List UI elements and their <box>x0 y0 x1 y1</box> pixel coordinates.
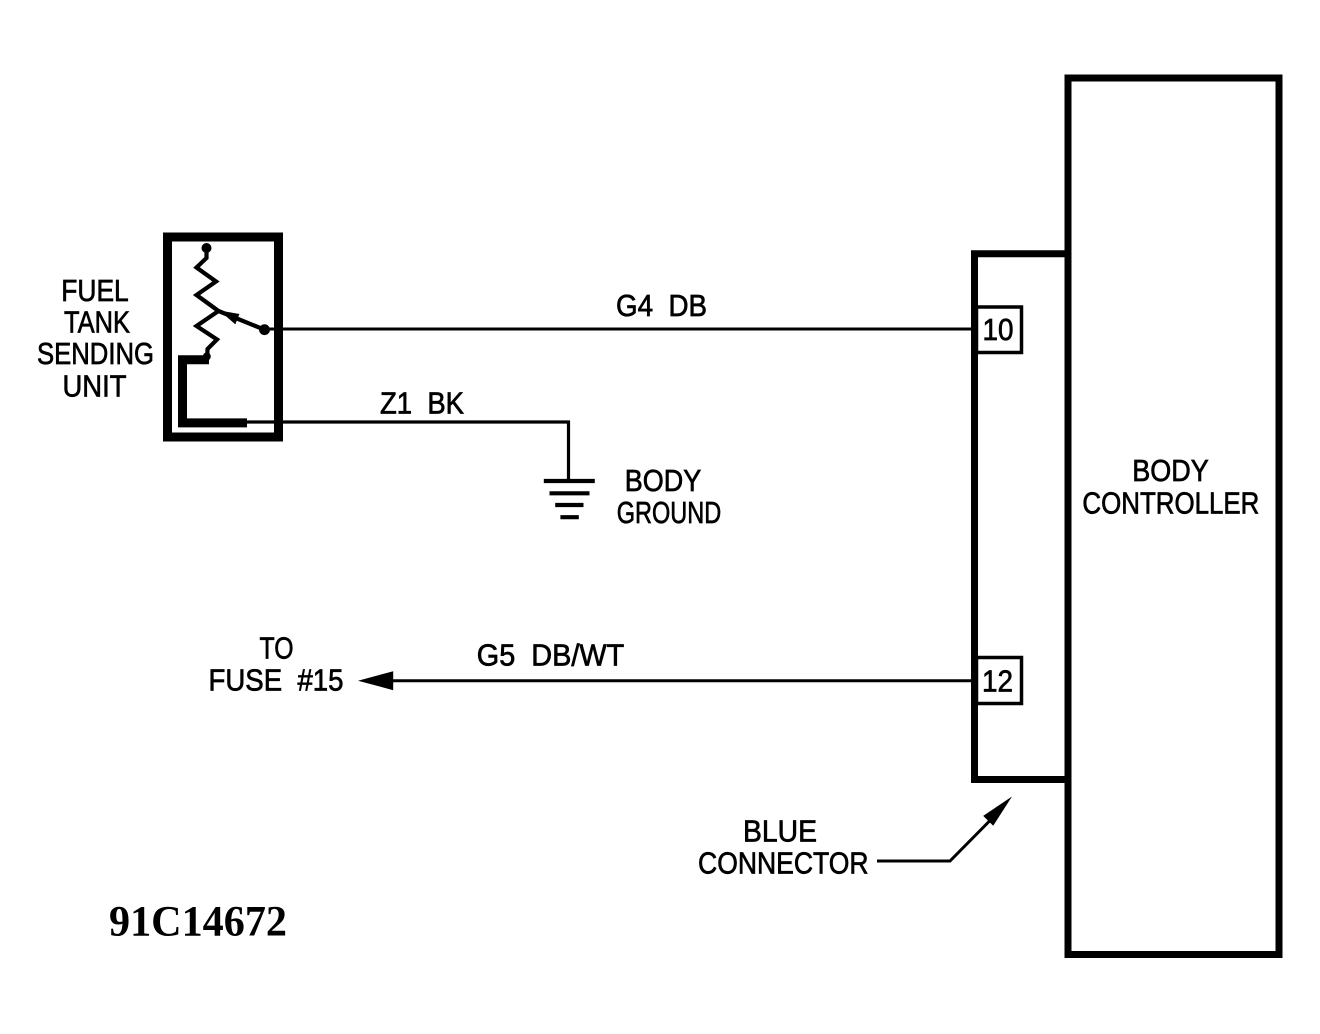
svg-text:TO: TO <box>260 631 294 666</box>
svg-text:10: 10 <box>983 312 1014 347</box>
svg-text:CONTROLLER: CONTROLLER <box>1082 485 1259 520</box>
resistor bottom junction dot <box>203 353 211 361</box>
svg-text:BLUE: BLUE <box>743 814 817 849</box>
blue connector leader line <box>877 820 991 862</box>
wire Z1 (sending unit to body ground) <box>244 422 569 479</box>
svg-text:CONNECTOR: CONNECTOR <box>698 845 869 880</box>
svg-text:TANK: TANK <box>64 305 130 340</box>
resistor top terminal dot <box>202 243 212 253</box>
wiper contact dot <box>259 324 270 335</box>
svg-text:UNIT: UNIT <box>63 369 127 404</box>
body ground symbol <box>544 481 595 517</box>
svg-text:BODY: BODY <box>1132 453 1209 488</box>
arrowhead to fuse <box>358 671 393 690</box>
pin 12 box <box>977 658 1022 704</box>
label FUEL TANK SENDING UNIT <box>37 273 154 404</box>
svg-text:SENDING: SENDING <box>37 336 154 371</box>
body controller box <box>1068 78 1279 955</box>
svg-text:G4 DB: G4 DB <box>616 288 707 323</box>
svg-text:12: 12 <box>982 664 1013 699</box>
svg-text:FUSE #15: FUSE #15 <box>209 663 344 698</box>
resistor zigzag (fuel level sensing element) <box>197 250 219 356</box>
blue connector leader arrowhead <box>983 797 1012 826</box>
pin 10 box <box>977 307 1022 353</box>
svg-text:FUEL: FUEL <box>61 273 129 308</box>
svg-text:Z1 BK: Z1 BK <box>380 386 464 421</box>
svg-text:GROUND: GROUND <box>617 495 722 530</box>
blue connector body <box>971 254 978 780</box>
wire G4 (sending unit to pin 10) <box>266 328 977 331</box>
svg-text:G5 DB/WT: G5 DB/WT <box>477 638 625 673</box>
fuel tank sending unit box <box>168 237 279 437</box>
svg-text:BODY: BODY <box>625 463 702 498</box>
wire G5 (pin 12 to fuse) <box>392 679 977 682</box>
thick ground-side conductor (L-shape) <box>183 360 248 423</box>
wiper arm <box>219 311 265 330</box>
wiper arrowhead <box>220 311 240 325</box>
svg-text:91C14672: 91C14672 <box>109 899 287 946</box>
